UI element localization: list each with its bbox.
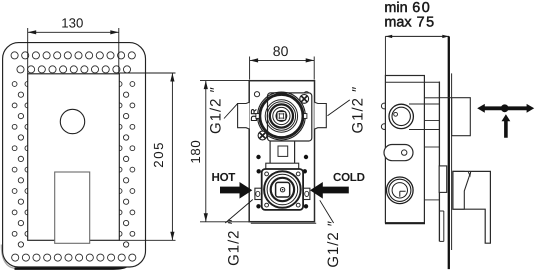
cylinder lines from top valve to plate [409, 103, 439, 105]
lower valve square [262, 169, 303, 210]
dimension 180: extension lines [200, 80, 249, 82]
plate holes: side columns [12, 82, 135, 248]
black dots around stem/square [256, 155, 308, 209]
dimension 205: dimension line with arrows [171, 73, 173, 240]
handle crease [464, 172, 470, 209]
plate holes: bottom row [12, 254, 136, 261]
svg-text:min: min [384, 0, 407, 16]
adjust arrow center dot [501, 104, 509, 112]
HOT arrow [220, 182, 252, 199]
bottom valve circles (side) [387, 177, 414, 204]
cartridge concentric rings [258, 92, 306, 140]
cartridge center square nut [277, 112, 286, 121]
depth dimension extension line (left) [384, 36, 386, 75]
cartridge center cross-hatch [279, 113, 285, 119]
collar above lower valve [266, 163, 299, 169]
svg-text:205: 205 [151, 141, 166, 168]
svg-text:75: 75 [417, 15, 436, 31]
dimension 80: extension lines [249, 57, 251, 80]
plate foot [443, 211, 445, 241]
leader line bottom-right G1/2 [320, 200, 334, 223]
DR label (rotated) [251, 109, 256, 120]
left ear (pipe socket) [238, 102, 250, 129]
connector lines body to plate [424, 120, 439, 122]
lower valve center square [276, 182, 290, 197]
top valve circles (side) [389, 104, 413, 128]
trim box (escutcheon cap) [452, 98, 471, 136]
leader line top-right G1/2 [328, 100, 350, 116]
body corner hole top-right [304, 92, 309, 97]
rear pipe bumps on body back [381, 103, 387, 109]
cartridge side notch right [304, 114, 307, 119]
handle boss [453, 171, 464, 209]
middle stadium port [384, 145, 413, 161]
hub through wall [439, 166, 447, 193]
side body rectangle [385, 76, 424, 223]
leader line top-left G1/2 [224, 104, 238, 119]
svg-text:60: 60 [412, 0, 431, 16]
lower valve rings [264, 171, 301, 208]
dimension 130: dimension line with arrows [28, 31, 119, 33]
stem between cartridge and lower valve [270, 141, 295, 163]
svg-text:G1/2 ″: G1/2 ″ [208, 86, 225, 134]
cartridge bracket rounded rect [268, 93, 312, 141]
dimension 80: dimension line [250, 59, 315, 61]
right ear (pipe socket) [314, 102, 326, 129]
body bottom shadow line [251, 222, 316, 224]
body corner hole top-left [254, 92, 259, 97]
valve body outer rectangle [249, 81, 314, 222]
lever opening rectangle [55, 172, 90, 243]
phillips screw bottom-left [258, 131, 267, 140]
svg-text:180: 180 [188, 140, 203, 164]
finished wall line (thick) [448, 36, 450, 269]
svg-text:130: 130 [61, 16, 83, 31]
upward arrow [502, 114, 511, 138]
svg-text:G1/2 ″: G1/2 ″ [325, 220, 342, 268]
svg-text:G1/2 ″: G1/2 ″ [225, 218, 242, 266]
top stub to plate [385, 81, 439, 83]
right tab at valve [303, 188, 310, 199]
handle outline [453, 171, 491, 243]
mounting plate (edge-on) [438, 82, 440, 242]
dimension 205: extension lines [119, 72, 175, 74]
side body bottom thick edge [385, 222, 425, 224]
depth dimension line with oblique ticks [385, 35, 449, 37]
svg-text:max: max [384, 15, 412, 31]
plate holes: top rows [11, 52, 135, 73]
COLD arrow [310, 182, 349, 199]
plate outer rounded rectangle [3, 43, 146, 267]
leader line bottom-left G1/2 [225, 200, 253, 224]
plate inner rectangle (wall opening) [28, 74, 120, 241]
dimension 180: dimension line [205, 81, 207, 222]
phillips screw top-right [300, 95, 309, 104]
plate shadow outline (thick, behind plate) [1, 245, 17, 269]
double-headed adjust arrow [477, 104, 534, 113]
svg-text:HOT: HOT [212, 171, 236, 184]
lower valve corner screws [265, 172, 300, 207]
svg-text:COLD: COLD [333, 171, 365, 184]
trim front line [451, 73, 453, 250]
cartridge side notch left [256, 114, 259, 119]
box top extension to plate [440, 97, 452, 99]
plate center hole [60, 109, 84, 133]
svg-text:G1/2 ″: G1/2 ″ [349, 86, 366, 134]
dimension 130: extension lines [27, 28, 29, 74]
stem top small rect [278, 146, 288, 156]
svg-text:80: 80 [273, 43, 289, 59]
left tab at valve [255, 188, 262, 199]
